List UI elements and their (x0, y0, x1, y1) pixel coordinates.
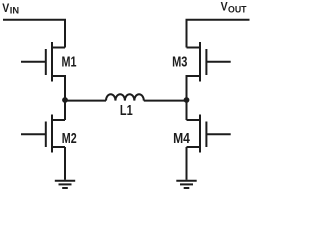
wire node A to L1 (65, 100, 106, 102)
net label VOUT (221, 2, 247, 15)
wire M2 source to ground (64, 147, 66, 180)
node B junction dot (184, 97, 190, 103)
wire M3 source to node B (186, 75, 188, 100)
transistor M2 (21, 115, 65, 153)
wire node A to M2 drain (64, 100, 66, 120)
svg-text:M1: M1 (62, 54, 77, 70)
svg-text:M3: M3 (172, 54, 187, 70)
transistor M1 (21, 42, 65, 82)
svg-text:L1: L1 (120, 103, 133, 119)
svg-text:IN: IN (10, 6, 19, 16)
svg-text:V: V (2, 3, 9, 15)
svg-text:M2: M2 (62, 131, 77, 147)
wire VOUT to M3 drain (187, 20, 250, 48)
wire node B to M4 drain (186, 100, 188, 120)
svg-text:M4: M4 (173, 131, 190, 147)
wire M1 source to node A (64, 75, 66, 100)
ground (left) (55, 181, 75, 188)
transistor M4 (187, 115, 231, 153)
transistor M3 (187, 42, 231, 82)
ground (right) (176, 181, 196, 188)
wire VIN to M1 drain (3, 20, 65, 48)
net label VIN (2, 3, 19, 16)
inductor L1 (106, 94, 144, 100)
wire M4 source to ground (186, 147, 188, 180)
svg-text:OUT: OUT (228, 5, 247, 15)
svg-text:V: V (221, 2, 228, 14)
wire L1 to node B (144, 100, 187, 102)
node A junction dot (62, 97, 68, 103)
